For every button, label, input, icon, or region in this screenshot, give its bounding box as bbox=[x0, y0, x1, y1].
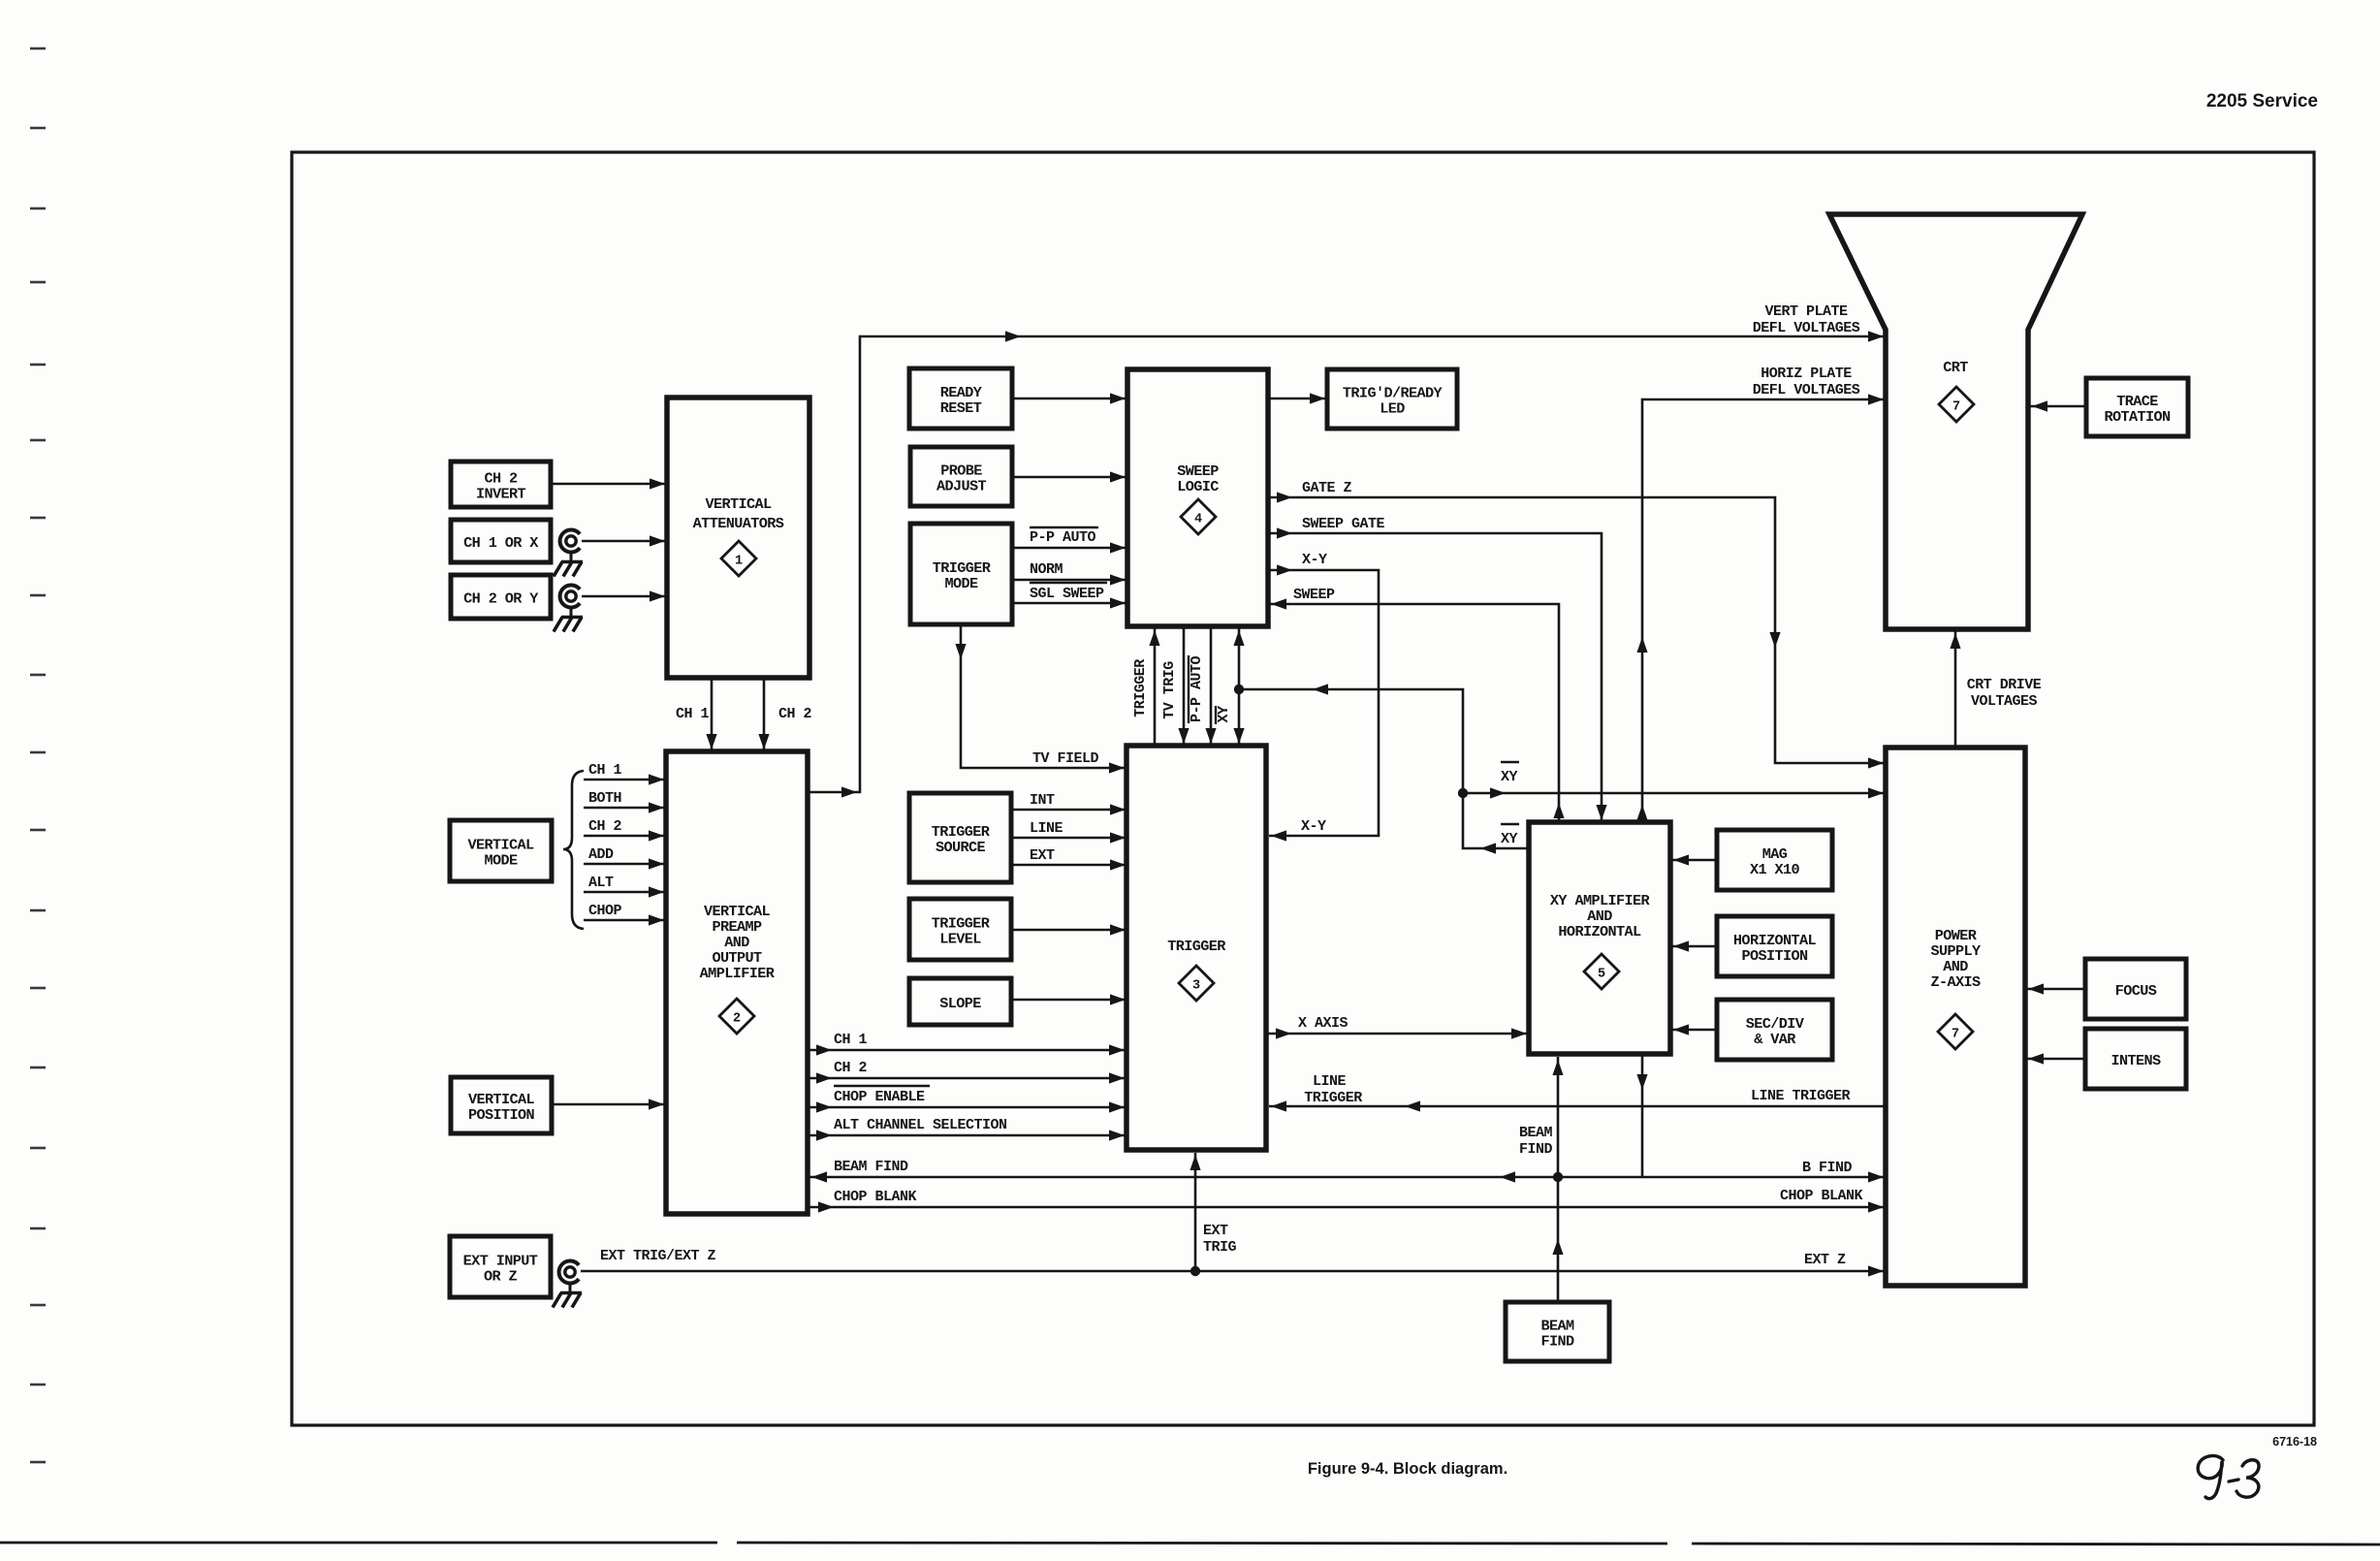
svg-text:Z-AXIS: Z-AXIS bbox=[1930, 973, 1981, 991]
block TRACE ROTATION control bbox=[2086, 378, 2188, 436]
wire TRACE ROTATION to CRT bbox=[2030, 400, 2086, 411]
block INTENS control bbox=[2085, 1029, 2186, 1089]
wire B FIND xy amplifier drop bbox=[1636, 1054, 1647, 1177]
wire CHOP BLANK preamp to power supply bbox=[809, 1188, 1886, 1213]
block MAG X1 X10 control bbox=[1717, 830, 1832, 890]
wire X AXIS trigger to xy amplifier bbox=[1266, 1015, 1529, 1039]
block BEAM FIND control bbox=[1506, 1302, 1609, 1361]
block CH 2 INVERT control bbox=[451, 462, 551, 507]
block EXT INPUT OR Z input bbox=[450, 1236, 551, 1297]
wire EXT TRIG riser to trigger bbox=[1190, 1153, 1236, 1271]
svg-text:CH 1: CH 1 bbox=[588, 762, 622, 779]
svg-text:X1 X10: X1 X10 bbox=[1750, 861, 1800, 878]
wire LINE TRIGGER power supply to trigger bbox=[1269, 1073, 1886, 1112]
wire XY branch to riser bbox=[1239, 684, 1463, 793]
svg-text:TRIGGER: TRIGGER bbox=[1167, 938, 1226, 955]
svg-text:FIND: FIND bbox=[1540, 1333, 1574, 1351]
svg-text:CHOP BLANK: CHOP BLANK bbox=[834, 1189, 917, 1205]
junction node XY riser to power supply branch bbox=[1458, 788, 1468, 798]
wire ALT CHANNEL SELECTION preamp to trigger bbox=[808, 1117, 1126, 1141]
svg-text:ATTENUATORS: ATTENUATORS bbox=[693, 515, 784, 532]
svg-text:INTENS: INTENS bbox=[2110, 1052, 2161, 1069]
wire EXT TRIG/EXT Z net bbox=[581, 1248, 1886, 1277]
svg-text:TRIGGER: TRIGGER bbox=[1132, 659, 1149, 717]
svg-text:P-P AUTO: P-P AUTO bbox=[1189, 655, 1205, 722]
svg-text:TRIG: TRIG bbox=[1203, 1239, 1237, 1256]
block PROBE ADJUST control bbox=[910, 447, 1012, 506]
wire CH 2 preamp to trigger bbox=[808, 1060, 1126, 1084]
svg-text:CH 2 OR Y: CH 2 OR Y bbox=[463, 590, 539, 608]
svg-text:Figure 9-4. Block diagram.: Figure 9-4. Block diagram. bbox=[1308, 1460, 1507, 1478]
wire LINE trigger source to trigger bbox=[1011, 820, 1126, 844]
wire X-Y sweep logic to trigger bbox=[1268, 552, 1379, 842]
svg-text:OR Z: OR Z bbox=[484, 1268, 518, 1286]
block U3 trigger bbox=[1127, 746, 1266, 1150]
wire vertical mode ALT bbox=[584, 875, 666, 898]
svg-text:ALT CHANNEL SELECTION: ALT CHANNEL SELECTION bbox=[834, 1117, 1007, 1133]
wire PROBE ADJUST to sweep logic bbox=[1012, 471, 1126, 482]
wire vertical mode CHOP bbox=[584, 903, 666, 926]
svg-text:LEVEL: LEVEL bbox=[939, 931, 981, 948]
wire CH 2 OR Y to attenuators bbox=[582, 590, 667, 601]
block U2 vertical preamp and output amplifier bbox=[666, 751, 808, 1214]
svg-text:BOTH: BOTH bbox=[588, 790, 621, 807]
block TRIGGER MODE control bbox=[910, 524, 1012, 624]
wire vertical mode CH 2 bbox=[584, 818, 666, 842]
wire CH 2 attenuators to preamp bbox=[758, 678, 811, 751]
connector J2 CH 2 OR Y bbox=[560, 586, 581, 608]
junction node BEAM FIND net bbox=[1553, 1172, 1563, 1182]
wire sweep logic to TRIG'D/READY LED bbox=[1268, 393, 1327, 403]
svg-text:1: 1 bbox=[735, 555, 743, 569]
ground at J3 bbox=[553, 1283, 582, 1308]
block U1 vertical attenuators bbox=[667, 398, 809, 678]
svg-text:ADJUST: ADJUST bbox=[936, 478, 987, 495]
handwritten page number 9-3 bbox=[2198, 1455, 2259, 1498]
svg-text:GATE Z: GATE Z bbox=[1302, 480, 1352, 496]
svg-text:CRT DRIVE: CRT DRIVE bbox=[1967, 677, 2042, 693]
svg-text:4: 4 bbox=[1194, 513, 1202, 527]
page bottom rule bbox=[0, 1543, 2380, 1545]
svg-text:EXT TRIG/EXT Z: EXT TRIG/EXT Z bbox=[600, 1248, 716, 1264]
svg-text:TV TRIG: TV TRIG bbox=[1161, 661, 1178, 719]
wire P-P AUTO to sweep logic bbox=[1012, 527, 1126, 554]
brace for vertical mode lines bbox=[563, 771, 584, 929]
svg-text:INT: INT bbox=[1030, 792, 1055, 809]
wire FOCUS to power supply bbox=[2026, 983, 2085, 994]
svg-text:DEFL VOLTAGES: DEFL VOLTAGES bbox=[1753, 382, 1860, 398]
svg-text:ADD: ADD bbox=[588, 846, 614, 863]
wire vertical mode CH 1 bbox=[584, 762, 666, 785]
svg-text:MODE: MODE bbox=[944, 575, 978, 592]
wire TV FIELD trigger mode to trigger bbox=[955, 624, 1127, 774]
svg-text:LINE TRIGGER: LINE TRIGGER bbox=[1751, 1088, 1851, 1104]
svg-text:CH 1 OR X: CH 1 OR X bbox=[463, 534, 539, 552]
wire INT trigger source to trigger bbox=[1011, 792, 1126, 815]
connector J1 CH 1 OR X bbox=[560, 530, 581, 553]
svg-text:RESET: RESET bbox=[940, 399, 982, 417]
svg-text:CHOP BLANK: CHOP BLANK bbox=[1780, 1188, 1863, 1204]
svg-text:CH 1: CH 1 bbox=[676, 706, 710, 722]
wire TRIGGER LEVEL to trigger bbox=[1011, 924, 1126, 935]
svg-text:3: 3 bbox=[1192, 979, 1200, 994]
block VERTICAL POSITION control bbox=[451, 1077, 552, 1133]
svg-text:EXT Z: EXT Z bbox=[1804, 1252, 1846, 1268]
svg-text:INVERT: INVERT bbox=[476, 486, 526, 503]
ground at J1 bbox=[554, 552, 583, 577]
svg-text:2205 Service: 2205 Service bbox=[2206, 91, 2318, 111]
block U7 power supply and z-axis bbox=[1886, 748, 2025, 1286]
svg-text:ROTATION: ROTATION bbox=[2104, 408, 2171, 426]
svg-text:& VAR: & VAR bbox=[1754, 1031, 1796, 1048]
block U7 CRT bbox=[1829, 214, 2082, 629]
wire CRT DRIVE VOLTAGES power supply to CRT bbox=[1950, 631, 2041, 748]
svg-text:SWEEP GATE: SWEEP GATE bbox=[1302, 516, 1385, 532]
svg-text:X-Y: X-Y bbox=[1301, 818, 1326, 835]
block TRIGGER LEVEL control bbox=[909, 899, 1011, 960]
junction node EXT TRIG tap on EXT TRIG/EXT Z net bbox=[1190, 1266, 1200, 1276]
wire XY from xy amplifier bbox=[1463, 793, 1529, 854]
wire INTENS to power supply bbox=[2026, 1053, 2085, 1064]
wire SGL SWEEP to sweep logic bbox=[1012, 583, 1126, 609]
svg-text:P-P AUTO: P-P AUTO bbox=[1030, 529, 1096, 546]
svg-text:SGL SWEEP: SGL SWEEP bbox=[1030, 586, 1104, 602]
wire EXT trigger source to trigger bbox=[1011, 847, 1126, 871]
svg-text:CHOP: CHOP bbox=[588, 903, 622, 919]
block TRIGGER SOURCE control bbox=[909, 793, 1011, 882]
wire GATE Z sweep logic to power supply bbox=[1268, 480, 1886, 769]
svg-text:B FIND: B FIND bbox=[1802, 1160, 1853, 1176]
svg-text:HORIZ PLATE: HORIZ PLATE bbox=[1761, 366, 1852, 382]
connector J3 EXT INPUT OR Z bbox=[559, 1261, 580, 1284]
svg-text:SOURCE: SOURCE bbox=[936, 839, 986, 856]
svg-text:XY: XY bbox=[1216, 706, 1232, 723]
svg-text:TV FIELD: TV FIELD bbox=[1032, 750, 1099, 767]
svg-text:ALT: ALT bbox=[588, 875, 614, 891]
wire P-P AUTO sweep logic to trigger bbox=[1189, 626, 1217, 746]
wire CH 1 OR X to attenuators bbox=[582, 535, 667, 546]
block U4 sweep logic bbox=[1127, 369, 1268, 626]
svg-text:CH 2: CH 2 bbox=[834, 1060, 868, 1076]
svg-text:VOLTAGES: VOLTAGES bbox=[1971, 693, 2038, 710]
ground at J2 bbox=[554, 607, 583, 632]
svg-text:SWEEP: SWEEP bbox=[1293, 587, 1335, 603]
wire CH 1 attenuators to preamp bbox=[676, 678, 717, 751]
svg-text:POSITION: POSITION bbox=[1741, 947, 1808, 965]
wire SWEEP xy amplifier to sweep logic bbox=[1269, 587, 1565, 822]
diagram border frame bbox=[292, 152, 2314, 1425]
page header text 2205 Service bbox=[2206, 91, 2318, 111]
svg-text:EXT: EXT bbox=[1203, 1223, 1228, 1239]
svg-text:XY: XY bbox=[1501, 831, 1518, 847]
svg-text:7: 7 bbox=[1952, 1028, 1959, 1042]
block READY RESET control bbox=[909, 368, 1012, 429]
svg-text:LED: LED bbox=[1380, 400, 1405, 418]
wire SWEEP GATE sweep logic to xy amplifier bbox=[1268, 516, 1607, 822]
page margin tick marks bbox=[30, 48, 46, 1462]
svg-text:FOCUS: FOCUS bbox=[2115, 982, 2157, 1000]
wire HORIZONTAL POSITION to xy amplifier bbox=[1671, 940, 1717, 951]
block CH 2 OR Y input bbox=[451, 575, 551, 619]
wire XY riser to power supply bbox=[1463, 762, 1886, 799]
svg-text:XY: XY bbox=[1501, 769, 1518, 785]
svg-text:HORIZONTAL: HORIZONTAL bbox=[1558, 923, 1641, 940]
wire HORIZ PLATE xy amplifier to CRT bbox=[1636, 366, 1886, 822]
svg-text:CH 1: CH 1 bbox=[834, 1032, 868, 1048]
svg-text:MODE: MODE bbox=[484, 852, 518, 870]
figure number 6716-18 bbox=[2272, 1435, 2317, 1449]
block CH 1 OR X input bbox=[451, 520, 551, 562]
wire NORM to sweep logic bbox=[1012, 561, 1126, 586]
svg-text:5: 5 bbox=[1598, 968, 1605, 982]
svg-text:DEFL VOLTAGES: DEFL VOLTAGES bbox=[1753, 320, 1860, 336]
svg-text:BEAM: BEAM bbox=[1519, 1125, 1553, 1141]
svg-text:VERTICAL: VERTICAL bbox=[705, 495, 772, 513]
caption Figure 9-4. Block diagram. bbox=[1308, 1460, 1507, 1478]
svg-text:FIND: FIND bbox=[1519, 1141, 1553, 1158]
block SEC/DIV & VAR control bbox=[1717, 1000, 1832, 1060]
block VERTICAL MODE control bbox=[450, 820, 552, 881]
wire CH 2 INVERT to attenuators bbox=[551, 478, 667, 489]
svg-text:POSITION: POSITION bbox=[468, 1106, 535, 1124]
svg-text:7: 7 bbox=[1952, 400, 1960, 415]
svg-text:CRT: CRT bbox=[1943, 359, 1968, 376]
svg-text:TRIGGER: TRIGGER bbox=[1304, 1090, 1362, 1106]
block TRIG'D/READY LED indicator bbox=[1327, 369, 1457, 429]
svg-text:EXT: EXT bbox=[1030, 847, 1055, 864]
block FOCUS control bbox=[2085, 959, 2186, 1019]
wire BEAM FIND net horizontal bbox=[809, 1159, 1886, 1183]
svg-text:LINE: LINE bbox=[1030, 820, 1063, 837]
wire vertical signal preamp to CRT vert plates bbox=[808, 303, 1886, 798]
svg-text:LINE: LINE bbox=[1313, 1073, 1347, 1090]
svg-text:X AXIS: X AXIS bbox=[1298, 1015, 1349, 1032]
block SLOPE control bbox=[909, 978, 1011, 1025]
wire VERTICAL POSITION to preamp bbox=[552, 1099, 666, 1109]
svg-text:CHOP ENABLE: CHOP ENABLE bbox=[834, 1089, 925, 1105]
wire BEAM FIND box riser bbox=[1519, 1057, 1564, 1302]
block U5 xy amplifier and horizontal bbox=[1529, 822, 1670, 1054]
svg-text:VERT PLATE: VERT PLATE bbox=[1764, 303, 1848, 320]
svg-text:BEAM FIND: BEAM FIND bbox=[834, 1159, 908, 1175]
block HORIZONTAL POSITION control bbox=[1717, 916, 1832, 976]
svg-text:LOGIC: LOGIC bbox=[1177, 478, 1219, 495]
svg-text:2: 2 bbox=[733, 1012, 741, 1027]
wire vertical mode BOTH bbox=[584, 790, 666, 813]
wire SEC/DIV & VAR to xy amplifier bbox=[1671, 1024, 1717, 1035]
wire CH 1 preamp to trigger bbox=[808, 1032, 1126, 1056]
svg-text:SLOPE: SLOPE bbox=[939, 995, 981, 1012]
svg-text:6716-18: 6716-18 bbox=[2272, 1435, 2317, 1449]
svg-text:CH 2: CH 2 bbox=[778, 706, 812, 722]
wire TV TRIG sweep logic to trigger bbox=[1161, 626, 1190, 746]
svg-text:NORM: NORM bbox=[1030, 561, 1063, 578]
svg-text:AMPLIFIER: AMPLIFIER bbox=[700, 965, 776, 982]
wire MAG to xy amplifier bbox=[1671, 854, 1717, 865]
svg-text:CH 2: CH 2 bbox=[588, 818, 622, 835]
wire XY sweep logic and trigger bbox=[1216, 628, 1245, 746]
svg-text:X-Y: X-Y bbox=[1302, 552, 1327, 568]
wire SLOPE to trigger bbox=[1011, 994, 1126, 1004]
junction node XY net at sweep/trigger riser bbox=[1234, 685, 1244, 694]
wire vertical mode ADD bbox=[584, 846, 666, 870]
wire CHOP ENABLE preamp to trigger bbox=[808, 1086, 1126, 1113]
wire TRIGGER trigger to sweep logic bbox=[1132, 628, 1160, 746]
wire READY RESET to sweep logic bbox=[1012, 393, 1126, 403]
